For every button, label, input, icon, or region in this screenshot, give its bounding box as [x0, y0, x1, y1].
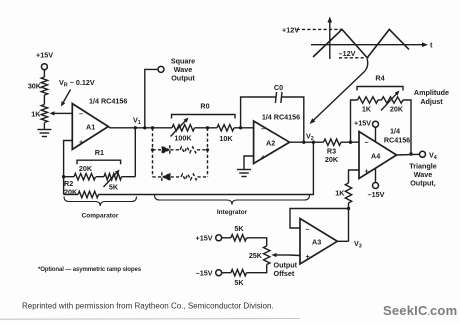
wire 5K to 25K pot top: [247, 238, 267, 246]
waveform +12V dashed level: [282, 25, 342, 34]
wire 100K to 10K: [195, 127, 218, 129]
wire 25K wiper to A3 + input: [289, 254, 300, 257]
svg-text:A2: A2: [266, 138, 275, 147]
wire R4 left leg: [351, 100, 358, 142]
ground (A2 non-inverting): [237, 170, 251, 177]
bracket R1: [77, 148, 121, 164]
svg-text:C0: C0: [274, 83, 283, 92]
op-amp A2: [254, 112, 301, 163]
svg-text:–12V: –12V: [339, 49, 356, 58]
resistor 1K (R4): [358, 97, 379, 114]
node square tap: [143, 126, 146, 129]
node C0 right: [302, 141, 305, 144]
svg-text:Output: Output: [171, 73, 195, 82]
wire A4 + input down: [349, 170, 360, 183]
svg-text:Adjust: Adjust: [420, 97, 443, 106]
wire R1 right leg: [134, 128, 136, 177]
svg-text:+15V: +15V: [354, 119, 371, 128]
svg-text:–: –: [261, 124, 265, 133]
op-amp A3: [300, 219, 337, 265]
svg-text:5K: 5K: [109, 182, 119, 191]
node R4 branch: [349, 141, 352, 144]
resistor 5K (offset bottom): [231, 270, 247, 288]
svg-text:+12V: +12V: [282, 25, 299, 34]
svg-text:–15V: –15V: [196, 269, 213, 278]
svg-text:+15V: +15V: [196, 234, 213, 243]
svg-text:V4: V4: [429, 150, 437, 161]
svg-text:Output,: Output,: [410, 178, 436, 187]
power terminal +15V (A4): [354, 119, 379, 142]
svg-text:SeekIC.com: SeekIC.com: [383, 303, 457, 318]
node A4 output junction: [409, 152, 412, 155]
op-amp A1: [72, 97, 127, 150]
power terminal +15V (top left): [36, 51, 53, 78]
svg-text:Offset: Offset: [274, 269, 295, 278]
potentiometer 5K (R1): [96, 170, 135, 192]
node V2: [306, 131, 315, 144]
svg-text:1/4 RC4156: 1/4 RC4156: [89, 97, 127, 106]
svg-text:A1: A1: [86, 122, 95, 131]
wire R2 to V2 node: [99, 142, 314, 194]
wire A1 + input to feedback node: [64, 141, 73, 195]
wire A3 feedback: [290, 209, 349, 229]
bracket R0: [172, 102, 236, 119]
waveform triangle wave: [313, 29, 409, 57]
power terminal -15V (A4): [368, 168, 385, 199]
svg-text:–: –: [306, 224, 310, 233]
op-amp A4: [359, 127, 410, 179]
diode D2 (dashed, bottom branch): [153, 172, 182, 181]
brace Comparator: [64, 197, 137, 220]
leader arrow waveform to V2: [310, 59, 368, 124]
resistor R3 20K: [324, 139, 342, 164]
potentiometer 20K (R4): [378, 91, 404, 114]
resistor 1K (A4 +): [335, 183, 351, 203]
svg-text:+: +: [261, 152, 265, 161]
resistor 30K: [28, 77, 48, 95]
svg-text:–: –: [365, 138, 369, 147]
svg-text:+15V: +15V: [36, 51, 53, 60]
svg-text:20K: 20K: [325, 155, 339, 164]
svg-text:R0: R0: [200, 102, 209, 111]
svg-text:5K: 5K: [234, 278, 244, 287]
potentiometer 1K: [31, 105, 68, 123]
resistor 20K (R1): [64, 164, 96, 180]
node dashed box right top: [206, 126, 209, 129]
svg-text:+: +: [306, 252, 310, 261]
wire 10K to A2 input: [234, 127, 254, 129]
wire A1 output to V1 row: [108, 127, 172, 128]
power terminal +15V (offset): [196, 234, 231, 243]
svg-text:–: –: [79, 109, 83, 118]
svg-text:R1: R1: [95, 148, 104, 157]
wire 30K to 1K pot: [43, 95, 45, 105]
potentiometer 25K: [249, 246, 289, 265]
bracket R4: [357, 74, 403, 91]
wire R4 right leg to output: [403, 100, 411, 154]
resistor 20K (R2): [64, 191, 99, 197]
node A3 feedback junction: [347, 207, 350, 210]
brace Integrator: [155, 195, 310, 216]
svg-text:1K: 1K: [335, 188, 345, 197]
resistor dashed (top branch): [180, 147, 208, 153]
wire 1K to V3 node: [348, 203, 350, 242]
node top branch right: [206, 148, 209, 151]
svg-text:100K: 100K: [174, 133, 192, 142]
waveform vertical axis: [328, 17, 333, 60]
svg-text:+: +: [79, 138, 83, 147]
svg-text:Comparator: Comparator: [82, 213, 119, 220]
svg-text:A4: A4: [371, 151, 380, 160]
capacitor C0: [241, 83, 304, 142]
svg-text:30K: 30K: [28, 82, 42, 91]
svg-text:A3: A3: [312, 237, 321, 246]
wire A3 output: [337, 240, 348, 242]
svg-text:20K: 20K: [390, 104, 404, 113]
node top branch left: [151, 148, 154, 151]
svg-text:Reprinted with permission from: Reprinted with permission from Raytheon …: [22, 302, 274, 311]
terminal Square Wave Output: [158, 56, 195, 82]
svg-text:20K: 20K: [79, 164, 93, 173]
wire wiper to A1 inverting input: [69, 112, 73, 114]
ground (below 1K pot): [37, 130, 51, 137]
svg-text:5K: 5K: [234, 224, 244, 233]
terminal V4 Triangle Wave Output: [409, 150, 437, 187]
svg-text:1K: 1K: [31, 109, 41, 118]
node dashed box left top: [151, 126, 154, 129]
svg-text:Amplitude: Amplitude: [414, 88, 449, 97]
wire A4 output to V4: [397, 153, 420, 156]
waveform horizontal axis: [311, 41, 433, 50]
power terminal -15V (offset): [196, 269, 231, 278]
wire square wave tap: [145, 69, 158, 127]
svg-text:V3: V3: [354, 239, 362, 250]
svg-text:V1: V1: [133, 115, 141, 126]
bottom hairline: [0, 318, 300, 321]
resistor 10K (R0): [217, 125, 234, 143]
node A1 feedback junction: [62, 175, 65, 178]
svg-text:10K: 10K: [219, 134, 233, 143]
svg-text:1/4 RC4156: 1/4 RC4156: [262, 112, 300, 121]
svg-text:R4: R4: [375, 74, 384, 83]
wire 5K to 25K pot bottom: [247, 265, 267, 273]
potentiometer 100K (R0): [171, 118, 195, 143]
svg-text:Integrator: Integrator: [217, 209, 248, 216]
wire A2 output to R3: [290, 141, 324, 143]
svg-text:25K: 25K: [249, 251, 263, 260]
svg-text:VR ~ 0.12V: VR ~ 0.12V: [59, 78, 95, 89]
dashed box right leg: [207, 128, 209, 177]
node V1: [133, 115, 141, 129]
resistor 5K (offset top): [231, 224, 247, 241]
svg-text:+: +: [365, 166, 369, 175]
svg-text:1K: 1K: [362, 104, 372, 113]
svg-text:1/4: 1/4: [390, 127, 400, 136]
svg-text:t: t: [430, 41, 433, 50]
svg-text:V2: V2: [306, 131, 314, 142]
wire A2 + input to ground: [244, 156, 254, 170]
arrow from VR label to wiper: [61, 90, 71, 107]
svg-text:–15V: –15V: [368, 190, 385, 199]
diode D1 (dashed, top branch): [153, 145, 181, 154]
svg-text:*Optional — asymmetric ramp sl: *Optional — asymmetric ramp slopes: [38, 266, 142, 273]
waveform -12V dashed level: [339, 49, 369, 58]
dashed box left leg: [152, 128, 154, 177]
resistor dashed (bottom branch): [181, 174, 208, 180]
node C0 left: [239, 126, 242, 129]
wire pot bottom to ground: [43, 123, 45, 130]
svg-text:RC4156: RC4156: [384, 136, 410, 145]
wire R3 to A4 inverting input: [341, 141, 359, 143]
